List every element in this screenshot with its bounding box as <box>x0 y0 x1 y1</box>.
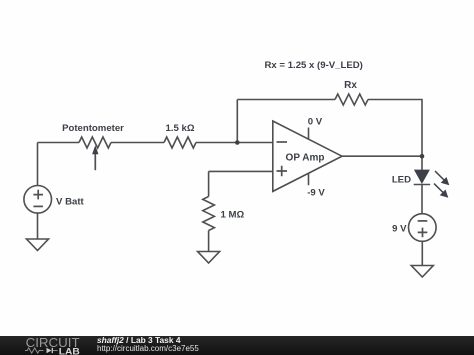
wire feedback vertical at node A <box>236 100 238 143</box>
wire top horizontal to potentiometer <box>38 142 80 144</box>
wire potentiometer to 1.5k resistor <box>111 142 164 144</box>
svg-text:Rx = 1.25 x (9-V_LED): Rx = 1.25 x (9-V_LED) <box>265 60 363 71</box>
voltage source V_Batt circle <box>24 186 52 214</box>
ground symbol GND1 under V_Batt <box>27 239 49 251</box>
wire op-amp output <box>342 155 422 157</box>
potentiometer wiper arrow <box>94 154 96 171</box>
9V source minus symbol <box>418 220 428 222</box>
LED D1 cathode bar <box>414 184 431 186</box>
potentiometer R_pot zigzag <box>79 137 111 148</box>
svg-text:-9 V: -9 V <box>307 188 325 199</box>
junction output node dot <box>420 154 425 159</box>
9V source plus symbol <box>418 228 428 238</box>
svg-text:0 V: 0 V <box>308 117 323 128</box>
resistor Rx zigzag <box>335 94 368 105</box>
wire V_Batt top lead <box>37 143 39 186</box>
wire down to R2 <box>208 171 210 196</box>
svg-text:Rx: Rx <box>344 80 357 91</box>
wire output node down to LED <box>421 156 423 170</box>
footer bar <box>0 336 474 355</box>
ground symbol GND3 under 9V source <box>411 266 433 278</box>
ground symbol GND2 under R2 <box>198 252 220 264</box>
svg-text:V Batt: V Batt <box>56 197 85 208</box>
wire Rx to output column <box>368 100 422 157</box>
op-amp U1 negative supply pin <box>308 173 310 185</box>
LED emission arrow 2 <box>434 184 443 193</box>
LED emission arrow 1 <box>435 171 444 180</box>
svg-text:LAB: LAB <box>59 347 80 355</box>
resistor R1 1.5k zigzag <box>164 137 196 148</box>
op-amp U1 triangle <box>273 121 342 191</box>
svg-text:OP Amp: OP Amp <box>286 153 325 164</box>
LED D1 triangle <box>414 170 430 184</box>
V_Batt minus symbol <box>33 205 43 207</box>
wire non-inverting input horizontal <box>209 170 273 172</box>
voltage source V2 9V circle <box>409 214 437 242</box>
wire 9V source to ground <box>421 241 423 265</box>
url text <box>97 344 199 353</box>
svg-text:1.5 kΩ: 1.5 kΩ <box>165 123 194 134</box>
title text <box>97 335 180 345</box>
op-amp U1 positive supply pin <box>308 128 310 140</box>
CircuitLab logo <box>0 336 95 355</box>
junction node A dot <box>235 140 240 145</box>
svg-text:9 V: 9 V <box>392 224 407 235</box>
svg-text:LED: LED <box>392 175 411 186</box>
wire R1 to op-amp inverting input <box>196 142 273 144</box>
op-amp non-inverting input plus symbol <box>277 166 288 176</box>
svg-text:Potentometer: Potentometer <box>62 123 124 134</box>
resistor R2 1M vertical zigzag <box>203 197 215 231</box>
wire R2 to ground <box>208 231 210 252</box>
svg-text:1 MΩ: 1 MΩ <box>221 210 245 221</box>
wire LED to 9V source <box>421 185 423 214</box>
wire V_Batt bottom lead <box>37 213 39 239</box>
wire feedback top horizontal to Rx <box>237 99 335 101</box>
V_Batt plus symbol <box>33 190 43 200</box>
op-amp inverting input minus symbol <box>277 141 288 143</box>
